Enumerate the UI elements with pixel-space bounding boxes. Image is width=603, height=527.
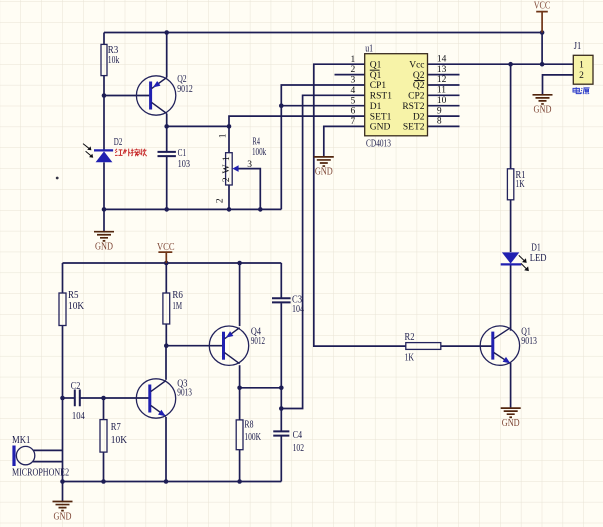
wire IR bottom bus [104,208,281,210]
pin 11 CP2 [408,86,446,102]
wire C2 right lead [80,397,103,399]
svg-text:2: 2 [350,65,355,75]
wire left bus R5 to bottom [62,326,64,482]
transistor Q4 [209,326,265,365]
svg-text:1: 1 [219,133,229,138]
svg-text:104: 104 [72,411,85,422]
svg-text:W: W [222,164,232,173]
svg-text:13: 13 [437,65,447,75]
svg-text:8: 8 [437,117,442,127]
svg-text:R7: R7 [111,422,121,433]
svg-text:R6: R6 [172,290,183,301]
wire IC pin14 Vcc wire to J1 pin1 [428,63,574,65]
label 红外接收 (IR receive) [115,149,147,157]
svg-text:10K: 10K [111,435,128,446]
svg-text:C1: C1 [178,148,187,159]
wire Q1 emitter to GND4 [510,363,512,408]
svg-text:CP1: CP1 [370,81,387,91]
svg-text:C4: C4 [293,430,303,441]
node Q2 emitter/VCC bus [164,30,169,35]
wire VCC-rail drop to J1 pin1 [541,33,543,65]
node SET1/R4 [227,124,232,129]
wire audio VCC bus [63,262,282,264]
wire Q4 collector down [239,365,241,388]
svg-text:u1: u1 [365,44,373,55]
node VCC drop [540,30,545,35]
svg-text:GND: GND [534,105,552,116]
node R6/Q4 base/Q3 collector [164,343,169,348]
svg-text:11: 11 [437,86,446,96]
svg-text:GND: GND [54,511,72,522]
node bottom bus/GND5 [60,479,65,484]
wire IC pin13 stub [428,74,460,76]
svg-text:LED: LED [530,253,547,264]
pin 7 GND [350,117,390,133]
svg-text:2: 2 [579,71,584,81]
svg-text:GND: GND [95,242,113,253]
svg-text:1: 1 [350,55,355,65]
pin 8 SET2 [403,117,442,133]
node Q4 emitter/bus [237,261,242,266]
svg-text:14: 14 [437,54,447,64]
node VCC1/R6 [164,261,169,266]
wire Q4 emitter up [239,263,241,326]
svg-text:2: 2 [216,198,226,203]
diode D1 (LED) [501,243,547,272]
node CP1/D1 pins [279,103,284,108]
wire R4 pin1 lead [228,126,230,152]
wire IC pin6 SET1 wire [229,116,365,126]
node bottom bus/Q3 emitter [164,479,169,484]
wire R6 node to Q4 base [166,345,222,347]
wire R8 top lead [239,388,241,420]
svg-text:2: 2 [222,177,232,182]
node VCC/J1 pin1 [540,62,545,67]
op-amp U1 (CD4013 dual flip-flop) [365,44,428,150]
wire D1 cathode to Q1 collector [510,265,512,330]
svg-text:1K: 1K [405,352,415,363]
transistor Q2 [136,74,192,115]
node bottom bus/R8 [237,479,242,484]
capacitor C3 [272,295,304,315]
svg-text:C2: C2 [71,381,81,392]
svg-text:R3: R3 [108,45,119,56]
svg-text:103: 103 [178,159,190,170]
svg-text:GND: GND [502,418,520,429]
pin 1 Q1 [350,55,381,71]
svg-text:100k: 100k [252,147,266,158]
node bottom bus/R7 [101,479,106,484]
wire R6 top lead [165,263,167,293]
node Q2 collector/C1 [164,124,169,129]
svg-text:1K: 1K [516,179,526,190]
node C2/left bus [60,396,65,401]
stray junction dot artifact [56,177,59,180]
transistor Q3 [136,378,192,418]
svg-text:D1: D1 [370,102,382,112]
wire Q3 emitter down [165,417,167,482]
svg-text:9013: 9013 [177,388,192,399]
node C2/R7/Q3 base [101,396,106,401]
wire IC pin1 Q1 wire to R2 [314,64,406,346]
power VCC (top right) [534,0,551,32]
wire Q1 base wire [441,345,492,347]
node bus/C1 [164,207,169,212]
microphone MK1 [12,435,69,478]
resistor R1 [507,169,513,200]
pin 5 D1 [350,96,381,112]
wire C2 left lead [63,397,75,399]
node C3-C4/Q4 wire [279,386,284,391]
resistor R6 [163,293,170,324]
potentiometer R4 [216,133,267,203]
node bus/D2/GND [102,207,107,212]
svg-text:9012: 9012 [177,84,193,95]
wire Q3 base wire [104,397,149,399]
wire IC pin7 GND wire [324,126,365,156]
ground GND5 (audio section) [53,502,73,523]
wire IC pin12 stub [428,84,460,86]
svg-text:9012: 9012 [251,336,265,347]
resistor R5 [59,293,66,326]
wire R1 top lead [510,64,512,169]
wire IC pin2 stub [335,74,365,76]
wire Q4 collector node right [240,387,282,389]
svg-text:Q2: Q2 [413,81,425,91]
pin 10 RST2 [402,96,446,112]
svg-text:R8: R8 [244,420,253,431]
svg-text:VCC: VCC [534,0,551,11]
node Q4 collector/R8 [237,386,242,391]
wire R1 bottom to D1 [510,200,512,252]
wire R7 top lead [103,398,105,420]
svg-text:102: 102 [293,443,304,454]
svg-text:RST1: RST1 [370,92,392,102]
ground GND3 (J1) [533,95,553,116]
svg-text:R5: R5 [68,290,79,301]
pin 12 Q2 [413,75,447,91]
svg-text:D1: D1 [531,243,541,254]
wire audio bottom bus [63,481,282,483]
wire R5 top lead [62,263,64,293]
svg-text:104: 104 [292,304,304,315]
node bus/R4 pin3 [258,207,263,212]
wire Q2 base wire [104,95,149,97]
wire C4 bottom lead [280,436,282,481]
wire R6 bottom lead [165,324,167,346]
ground GND2 (IC pin7) [314,157,334,178]
svg-text:D2: D2 [114,137,123,148]
wire J1 pin2 to GND [543,75,574,95]
pin 4 RST1 [350,86,392,102]
wire IC pin8 stub [428,125,460,127]
connector J1 [573,41,593,84]
wire Q2 emitter to VCC bus [166,33,168,78]
svg-text:D2: D2 [413,112,425,122]
svg-text:1: 1 [579,60,584,70]
resistor R3 [101,44,107,75]
wire R3 top lead [103,33,105,45]
wire MK1 bottom pin wire [33,461,63,463]
capacitor C1 [158,148,191,170]
wire R8 bottom lead [239,450,241,482]
svg-text:R2: R2 [405,332,415,343]
wire MK1 top pin wire [33,449,63,451]
svg-text:GND: GND [370,123,391,133]
resistor R8 [236,420,243,450]
svg-text:GND: GND [315,167,333,178]
svg-text:4: 4 [350,86,355,96]
diode D2 (IR receiver) [83,137,122,162]
pin 2 Q1 [350,65,381,81]
svg-text:SET1: SET1 [370,112,392,122]
resistor R2 [405,332,441,364]
wire VCC top bus [104,32,542,34]
svg-text:9013: 9013 [521,336,537,347]
wire C1 top lead [166,126,168,151]
wire GND1 stem [103,209,105,231]
node Q2 base/R3/D2 [102,93,107,98]
wire IC pin9 stub [428,115,460,117]
svg-text:10K: 10K [68,301,85,312]
svg-text:Q1: Q1 [370,71,382,81]
pin 3 CP1 [350,76,386,92]
wire IC pin4 RST1 wire [281,95,364,408]
wire C3 bottom to C4 top [280,303,282,431]
power VCC (audio section) [157,242,175,263]
svg-text:1M: 1M [172,301,182,312]
svg-text:Q2: Q2 [413,71,425,81]
ground GND1 (IR section) [94,232,114,253]
wire C3 top lead [280,263,282,298]
wire IC pin11 stub [428,94,460,96]
wire IC pin5 D1 wire [281,105,364,107]
node R1/Vcc wire [508,62,513,67]
svg-text:3: 3 [350,76,355,86]
wire C1 bottom lead [166,157,168,210]
wire IC pin10 stub [428,105,460,107]
pin 6 SET1 [350,107,391,123]
ground GND4 (Q1 emitter) [501,408,521,429]
wire R4 wiper pin3 wire [238,169,260,210]
wire GND5 stem [62,482,64,502]
wire Q3 collector up [165,346,167,380]
svg-text:Q1: Q1 [370,60,382,70]
pin 14 Vcc [409,54,446,70]
svg-text:MK1: MK1 [12,435,30,446]
svg-text:12: 12 [437,75,447,85]
pin 13 Q2 [413,65,447,81]
svg-text:3: 3 [247,160,252,170]
svg-text:1: 1 [222,156,232,161]
wire IC pin3 CP1 wire [281,85,364,209]
svg-text:CP2: CP2 [408,92,425,102]
wire R3 bottom to Q2 base node to D2 [103,76,105,150]
resistor R7 [100,420,107,453]
svg-text:7: 7 [350,117,355,127]
svg-text:SET2: SET2 [403,123,425,133]
svg-text:VCC: VCC [157,242,175,253]
node RST1 node [279,406,284,411]
svg-text:J1: J1 [574,41,582,52]
label 电源 (power) [573,87,590,94]
node bus/R4 pin2 [227,207,232,212]
svg-text:9: 9 [437,106,442,116]
wire D2 cathode to bottom bus [103,162,105,209]
svg-text:6: 6 [350,107,355,117]
svg-text:RST2: RST2 [402,102,424,112]
svg-text:5: 5 [350,96,355,106]
wire Q2 collector node to R4 node [167,125,229,127]
svg-text:10k: 10k [108,55,120,66]
pin 9 D2 [413,106,442,122]
capacitor C2 [71,381,85,422]
wire R4 pin2 lead [228,185,230,209]
transistor Q1 [480,326,537,365]
capacitor C4 [273,430,304,454]
svg-text:Vcc: Vcc [409,60,424,70]
svg-text:CD4013: CD4013 [366,138,391,149]
wire R7 bottom lead [103,452,105,481]
svg-text:100K: 100K [244,432,261,443]
svg-text:10: 10 [437,96,447,106]
svg-text:MICROPHONE2: MICROPHONE2 [12,468,69,479]
wire Q2 collector down [166,114,168,127]
